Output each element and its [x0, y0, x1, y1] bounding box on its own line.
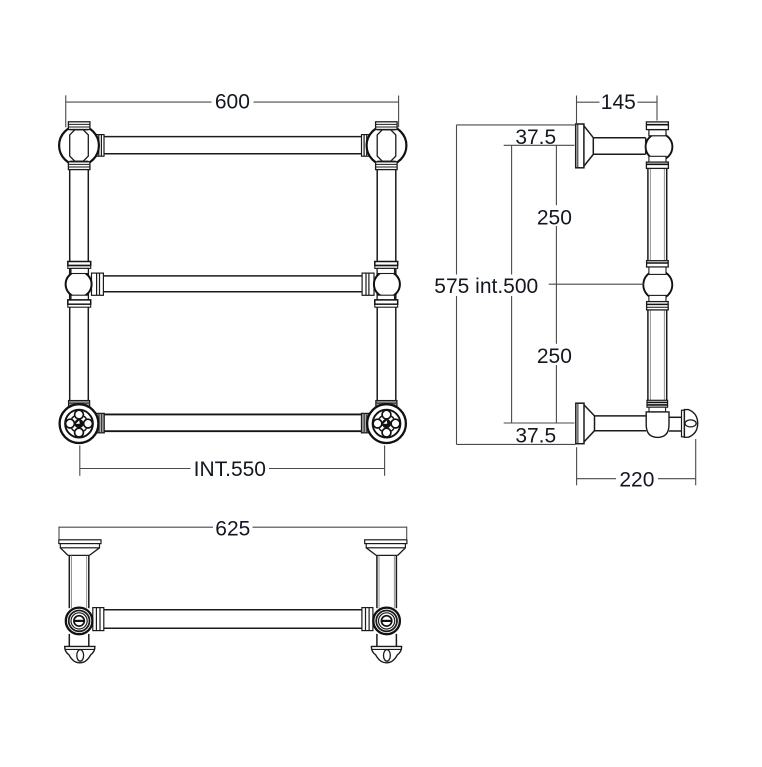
- left vertical post (front): [70, 170, 89, 401]
- plan left end cap: [65, 646, 95, 662]
- T-joint ball, front mid-left: [66, 262, 92, 308]
- wheel joint, front bottom-right: [367, 404, 406, 443]
- plan left pipe upper: [69, 555, 89, 608]
- dim INT.550 extension right: [384, 445, 386, 475]
- top wall arm (side): [593, 138, 645, 154]
- wheel joint shaded collar, bottom-right: [376, 401, 397, 408]
- dim 575 vertical line: [456, 125, 458, 445]
- dim int.500 top extension: [504, 144, 575, 146]
- bottom wall cone (side): [584, 405, 595, 442]
- middle rail (front): [104, 276, 362, 292]
- plan rail left collar: [93, 608, 104, 631]
- bottom wall arm (side): [595, 416, 647, 431]
- plan left pipe lower: [69, 634, 89, 647]
- elbow right stub (side): [669, 417, 682, 431]
- plan right pipe upper: [377, 555, 397, 608]
- dim int.500 bottom extension: [504, 422, 575, 424]
- plan rail: [104, 610, 362, 628]
- text halo 575 int.500: [432, 275, 542, 297]
- dim 600 line: [66, 101, 212, 103]
- dim 220 extension right: [695, 439, 697, 485]
- dim 625 extension right: [406, 527, 408, 540]
- plan right joint (screw rosette from above): [373, 608, 400, 635]
- dim 600 extension right: [398, 96, 400, 128]
- svg-text:250: 250: [537, 206, 572, 229]
- plan left wall flange: [59, 540, 101, 556]
- text halo 250 top: [536, 205, 576, 226]
- svg-text:600: 600: [215, 91, 250, 114]
- plan right pipe lower: [377, 634, 397, 647]
- side post inner highlight lines: [650, 168, 664, 400]
- top rail (front): [104, 137, 362, 154]
- svg-text:220: 220: [619, 469, 654, 492]
- dim int.500 vertical line: [511, 145, 513, 423]
- side vertical post: [648, 168, 667, 400]
- bottom rail (front): [104, 414, 361, 431]
- svg-text:145: 145: [601, 91, 636, 114]
- dim 220 extension left: [576, 447, 578, 485]
- bottom rail left collar (shaded): [96, 413, 104, 432]
- dim 37.5/250 vertical line: [555, 145, 557, 423]
- top wall plate (side): [576, 124, 584, 168]
- dim 145 line: [577, 101, 600, 103]
- plan rail right collar: [362, 608, 373, 631]
- svg-text:575 int.500: 575 int.500: [434, 275, 538, 298]
- bottom ring collar (side): [647, 400, 668, 412]
- dim 600 extension left: [65, 95, 67, 127]
- dim 625 extension left: [58, 527, 60, 540]
- dim 575 bottom extension: [457, 443, 576, 445]
- svg-text:INT.550: INT.550: [194, 458, 266, 481]
- bottom elbow (side): [646, 412, 669, 438]
- right vertical post (front): [377, 170, 396, 401]
- bottom rail right collar (shaded): [362, 413, 370, 432]
- top wall cone (side): [584, 126, 593, 166]
- middle rail left collar: [92, 273, 104, 295]
- plan left joint (screw rosette from above): [66, 608, 93, 635]
- dim 145 extension left: [576, 96, 578, 124]
- dim 220 line: [577, 478, 616, 480]
- dim 145 extension right: [656, 96, 658, 121]
- plan right end cap: [371, 646, 401, 662]
- bottom wall plate (side): [576, 403, 584, 444]
- T-joint ball, front mid-right: [374, 262, 400, 308]
- top ball joint (side): [646, 133, 673, 160]
- leader line for 575 int.500: [549, 283, 644, 285]
- dim INT.550 extension left: [79, 445, 81, 475]
- svg-text:250: 250: [537, 345, 572, 368]
- plan right wall flange: [365, 540, 407, 556]
- top ball cap and collars (side): [646, 122, 668, 169]
- corner ball joint, front top-left: [59, 122, 99, 170]
- middle rail right collar: [362, 273, 374, 295]
- top rail right collar: [362, 135, 370, 157]
- end cap dome (side): [682, 410, 698, 438]
- top rail left collar: [96, 135, 104, 157]
- dim 625 line: [59, 526, 213, 528]
- middle ball joint (side): [643, 261, 672, 310]
- svg-text:625: 625: [215, 517, 250, 540]
- dim 575 top extension: [457, 124, 576, 126]
- svg-text:37.5: 37.5: [515, 425, 556, 448]
- text halo 250 bottom: [536, 344, 576, 365]
- svg-text:37.5: 37.5: [515, 126, 556, 149]
- wheel joint, front bottom-left: [60, 404, 99, 443]
- corner ball joint, front top-right: [367, 122, 407, 170]
- wheel joint shaded collar, bottom-left: [69, 401, 90, 408]
- dim INT.550 line: [80, 468, 191, 470]
